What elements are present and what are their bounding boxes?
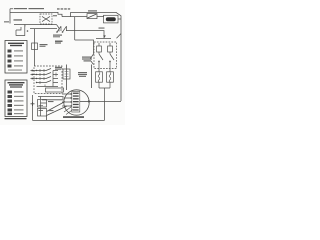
wire y=28.6 run [30, 28, 57, 30]
valve contact left [97, 43, 103, 72]
label above plug J1 [88, 10, 97, 11]
motor terminal dots [70, 93, 71, 94]
junction dot valve left [98, 61, 100, 63]
legend2 row texts [14, 91, 24, 92]
wire diagonal to motor 2 [47, 106, 68, 116]
wire fuse vertical [34, 29, 36, 66]
legend1 row texts [14, 50, 23, 51]
legend1 row icons [8, 50, 12, 53]
junction dot y28 [27, 30, 29, 32]
timer contact row 3 [37, 77, 59, 79]
right bus diagonal into valve [117, 34, 122, 39]
arrowheads [27, 30, 111, 107]
legend2 title [8, 82, 25, 83]
legend2 row icons [8, 91, 13, 94]
timer internal vertical [52, 71, 54, 87]
junction blob left [31, 102, 35, 106]
noise filter element [106, 17, 116, 21]
label near valve corner [99, 28, 105, 29]
label fuse [40, 44, 48, 45]
lid switch box (dashed) [40, 14, 52, 24]
pressure switch contact [90, 52, 94, 65]
legend box 1 (wire color code) [5, 41, 27, 74]
wire temp switch to valve [66, 31, 104, 39]
legend box 2 (attention/switch chart) [5, 80, 28, 119]
timer cam marks [40, 69, 56, 87]
solenoid coil right [107, 72, 114, 82]
solenoid coil left [96, 72, 103, 82]
bottom right bus [91, 100, 121, 102]
junction dot temp sw b [62, 31, 64, 33]
wire into temp switch [57, 25, 60, 32]
valve contact right [108, 43, 114, 72]
wire lid switch drop [45, 23, 47, 26]
label capacitor A [48, 101, 54, 102]
wire noise-filter branch [62, 16, 104, 18]
label L1/N near power [14, 19, 23, 20]
wire main top bus (left segment) [10, 12, 62, 16]
motor winding marks [73, 93, 79, 111]
start switch marks [65, 72, 69, 77]
motor leads left [62, 94, 72, 106]
timer contact row 5 [37, 86, 59, 88]
timer box (dashed) [34, 66, 62, 94]
label lid switch [53, 15, 57, 16]
wire pressure sw to motor [91, 65, 93, 89]
label above timer dashes [57, 8, 60, 9]
legend1 title [8, 43, 24, 44]
capacitor stack [38, 97, 47, 117]
start switch box [63, 69, 70, 79]
label capacitor B [48, 110, 54, 111]
label dark blob center [55, 41, 63, 43]
timer contact row 4 [37, 81, 59, 83]
label timer [55, 67, 62, 68]
motor winding column [72, 92, 80, 113]
wire main top bus (right segment) [71, 12, 122, 101]
water temp switch contacts [57, 26, 67, 32]
label top caution 1 [14, 8, 27, 9]
connector plug J1 [87, 14, 97, 19]
timer contact row 2 [37, 73, 59, 75]
wire diagonal to motor 1 [47, 102, 66, 112]
motor lead right [80, 100, 91, 102]
start switch vertical [66, 65, 68, 91]
wire motor return drop [104, 101, 106, 120]
arrow valve feed [103, 35, 106, 37]
timer protector bar [46, 88, 64, 92]
wires timer to motor [38, 97, 64, 100]
terminal dots timer rows [36, 70, 37, 71]
tiny text smudges [4, 8, 105, 118]
arrowheads timer stubs [32, 69, 34, 79]
label water level A [82, 57, 92, 58]
lid switch contacts [42, 16, 50, 21]
timer contact row 1 [37, 69, 59, 71]
legend2 footnote [5, 118, 27, 119]
wire stub capacitor bottom [46, 116, 48, 121]
motor circle [64, 90, 89, 115]
wire timer-left drop [32, 95, 34, 120]
label water level B [78, 72, 87, 73]
bottom bus [33, 119, 105, 121]
junction dot valve right [109, 61, 111, 63]
water valve feed bar [96, 37, 111, 39]
wire filter to right bus [118, 18, 121, 20]
power cord block [14, 25, 25, 36]
wire vertical drop x=74.7 [74, 17, 76, 40]
wire L1 power lead top-left [10, 9, 13, 24]
fuse box [32, 43, 38, 50]
wire to pressure switch [75, 40, 94, 52]
junction dot temp sw a [56, 31, 58, 33]
water valve dashed enclosure [94, 42, 117, 69]
label drive motor [63, 116, 84, 118]
wires solenoids merge [99, 82, 110, 101]
wire from plug to center y=24.6 [25, 24, 57, 26]
timer left stubs [31, 71, 37, 79]
motor bottom diagonals [64, 107, 73, 115]
label water temp [53, 35, 62, 36]
arrow motor right [88, 100, 91, 103]
noise filter box [104, 15, 119, 23]
